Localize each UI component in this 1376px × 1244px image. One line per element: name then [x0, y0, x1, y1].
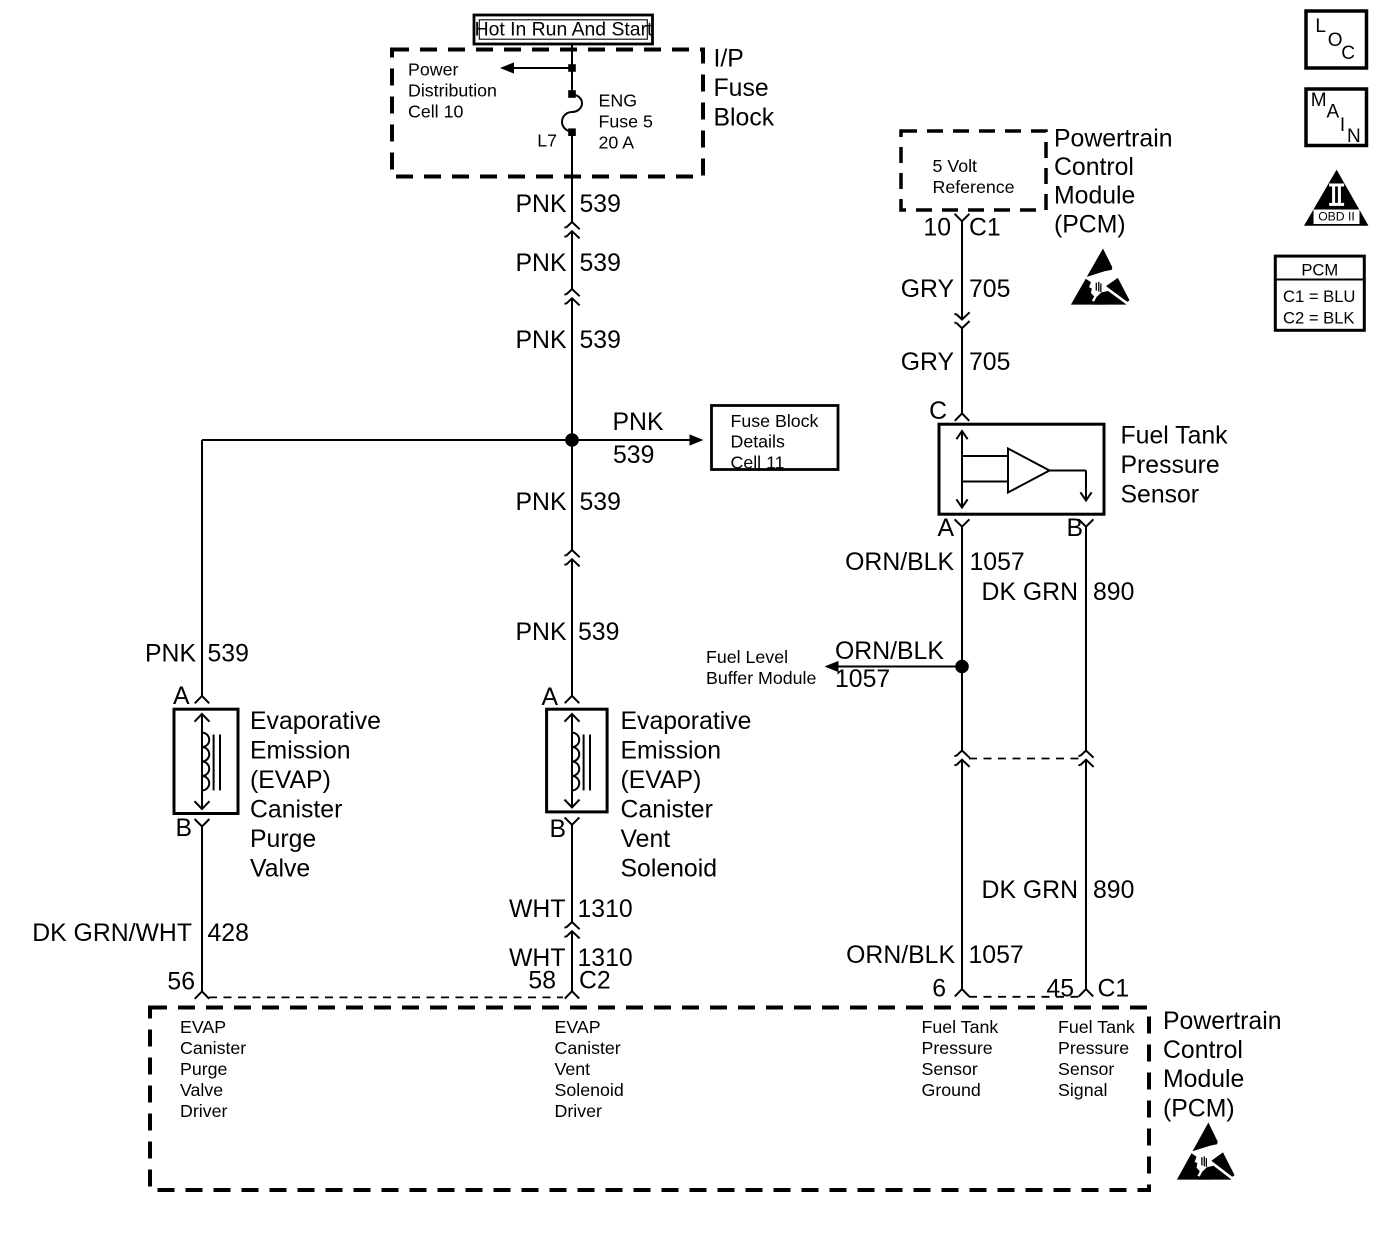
- svg-text:890: 890: [1093, 579, 1134, 606]
- svg-text:PCM: PCM: [1301, 261, 1338, 280]
- label Power Distribution Cell 10: [408, 59, 497, 121]
- svg-text:Module: Module: [1163, 1066, 1244, 1093]
- inline connector break 2: [564, 289, 579, 305]
- power source box Hot In Run And Start: [474, 15, 653, 44]
- svg-text:I/P: I/P: [714, 45, 744, 72]
- svg-text:ORN/BLK: ORN/BLK: [845, 549, 954, 576]
- svg-text:PNK: PNK: [516, 250, 567, 277]
- svg-text:B: B: [549, 816, 566, 843]
- I/P fuse block dashed boundary: [392, 50, 703, 177]
- svg-text:539: 539: [580, 327, 621, 354]
- solenoid EVAP Canister Vent Solenoid: [547, 709, 608, 812]
- svg-text:56: 56: [167, 969, 195, 996]
- op-amp U1 (sensor amplifier): [1008, 449, 1050, 493]
- label EVAP Canister Purge Valve Driver: [180, 1017, 246, 1121]
- svg-text:Emission: Emission: [621, 738, 722, 765]
- svg-text:Powertrain: Powertrain: [1054, 125, 1173, 152]
- label Fuel Level Buffer Module: [706, 647, 816, 688]
- svg-text:C1: C1: [969, 215, 1001, 242]
- value label ENG Fuse 5 20 A: [599, 90, 653, 152]
- svg-text:PNK: PNK: [613, 409, 664, 436]
- legend box MAIN: [1306, 89, 1367, 147]
- svg-text:ENG: ENG: [599, 90, 638, 110]
- pin label 58: [528, 968, 556, 995]
- svg-text:(PCM): (PCM): [1054, 211, 1126, 238]
- svg-text:Purge: Purge: [180, 1059, 228, 1079]
- node splice junction dot: [565, 433, 579, 447]
- terminal A purge valve: [195, 696, 209, 703]
- svg-text:(EVAP): (EVAP): [621, 767, 702, 794]
- svg-text:58: 58: [528, 968, 556, 995]
- svg-text:N: N: [1347, 126, 1361, 147]
- svg-text:Hot In Run And Start: Hot In Run And Start: [475, 18, 653, 40]
- svg-text:OBD II: OBD II: [1318, 210, 1355, 224]
- terminal A sensor: [955, 519, 970, 526]
- svg-text:10: 10: [923, 215, 951, 242]
- terminal 45 C1 into PCM: [1079, 989, 1093, 996]
- svg-text:Ground: Ground: [922, 1080, 981, 1100]
- svg-text:Sensor: Sensor: [922, 1059, 978, 1079]
- label I/P Fuse Block: [714, 45, 775, 131]
- value label ORN/BLK 1057 (2): [846, 942, 1024, 969]
- svg-text:ORN/BLK: ORN/BLK: [835, 638, 944, 665]
- connector link dashed: [969, 758, 1079, 760]
- svg-text:1057: 1057: [969, 942, 1024, 969]
- pin label B (sensor): [1066, 515, 1083, 542]
- sensor box Fuel Tank Pressure Sensor: [939, 424, 1104, 514]
- svg-text:PNK: PNK: [145, 641, 196, 668]
- value label GRY 705 (1): [901, 276, 1011, 303]
- value label DK GRN/WHT 428: [32, 920, 249, 947]
- wire PNK 539 left branch: [201, 440, 203, 696]
- legend table PCM connector colors: [1275, 256, 1364, 330]
- svg-text:EVAP: EVAP: [180, 1017, 226, 1037]
- label Powertrain Control Module (PCM) top: [1054, 125, 1173, 238]
- svg-text:EVAP: EVAP: [555, 1017, 601, 1037]
- svg-text:1310: 1310: [578, 896, 633, 923]
- pin label A (vent solenoid): [541, 684, 558, 711]
- svg-text:Power: Power: [408, 59, 458, 79]
- svg-text:GRY: GRY: [901, 349, 954, 376]
- connector edge dashed (right): [969, 996, 1079, 998]
- svg-text:A: A: [173, 683, 190, 710]
- ESD sensitivity symbol (top): [1071, 249, 1130, 305]
- label Evaporative Emission (EVAP) Canister Vent Solenoid: [621, 708, 752, 883]
- pin label B (vent solenoid): [549, 816, 566, 843]
- wire WHT 1310 segment 1: [571, 825, 573, 922]
- value label PNK 539 (left): [145, 641, 249, 668]
- value label WHT 1310 (1): [509, 896, 633, 923]
- svg-text:I: I: [1340, 115, 1345, 136]
- inline connector break 3: [564, 550, 579, 566]
- svg-text:Module: Module: [1054, 183, 1135, 210]
- svg-text:1057: 1057: [970, 549, 1025, 576]
- svg-text:Evaporative: Evaporative: [250, 708, 381, 735]
- svg-text:705: 705: [969, 349, 1010, 376]
- svg-text:PNK: PNK: [516, 191, 567, 218]
- svg-text:Canister: Canister: [250, 797, 342, 824]
- wire GRY 705 segment 1: [961, 221, 963, 319]
- wire DK GRN 890 segment 1: [1085, 527, 1087, 750]
- arrow wire to Fuel Level Buffer Module: [825, 661, 963, 672]
- module box Powertrain Control Module dashed: [150, 1008, 1149, 1191]
- wire ORN/BLK 1057 segment 1: [961, 527, 963, 750]
- value label PNK 539 (5): [516, 619, 620, 646]
- svg-text:A: A: [541, 684, 558, 711]
- value label PNK 539 (4): [516, 489, 621, 516]
- value label DK GRN 890 (2): [982, 877, 1135, 904]
- svg-text:A: A: [937, 515, 954, 542]
- wire GRY 705 segment 2: [961, 328, 963, 413]
- svg-text:45: 45: [1046, 976, 1074, 1003]
- svg-text:Fuel Tank: Fuel Tank: [1121, 423, 1229, 450]
- svg-text:(PCM): (PCM): [1163, 1095, 1235, 1122]
- svg-text:Canister: Canister: [621, 797, 713, 824]
- label EVAP Canister Vent Solenoid Driver: [555, 1017, 624, 1121]
- svg-text:PNK: PNK: [516, 619, 567, 646]
- value label PNK 539 (1): [516, 191, 621, 218]
- svg-text:Reference: Reference: [933, 177, 1015, 197]
- sensor output line: [1050, 471, 1092, 501]
- value label ORN/BLK 1057 (arrow): [835, 638, 944, 693]
- pin label C1 (bottom): [1098, 976, 1130, 1003]
- svg-text:C2 = BLK: C2 = BLK: [1283, 308, 1355, 327]
- value label ORN/BLK 1057 (1): [845, 549, 1025, 576]
- inline connector break 5 (down): [954, 312, 969, 328]
- label Evaporative Emission (EVAP) Canister Purge Valve: [250, 708, 381, 883]
- value label PNK 539 (arrow): [613, 409, 664, 469]
- wire PNK 539 segment 2: [571, 231, 573, 288]
- svg-text:705: 705: [969, 276, 1010, 303]
- inline connector break 1: [564, 222, 579, 238]
- svg-text:Vent: Vent: [621, 826, 671, 853]
- svg-text:539: 539: [580, 250, 621, 277]
- pin label 45: [1046, 976, 1074, 1003]
- svg-text:(EVAP): (EVAP): [250, 767, 331, 794]
- node junction square at distribution tap: [568, 64, 576, 72]
- svg-text:Vent: Vent: [555, 1059, 591, 1079]
- terminal B vent solenoid: [565, 817, 580, 824]
- svg-text:Fuel Tank: Fuel Tank: [1058, 1017, 1135, 1037]
- value label GRY 705 (2): [901, 349, 1011, 376]
- label Fuel Tank Pressure Sensor Ground: [922, 1017, 999, 1100]
- solenoid EVAP Canister Purge Valve: [174, 709, 238, 813]
- svg-text:GRY: GRY: [901, 276, 954, 303]
- svg-text:Powertrain: Powertrain: [1163, 1008, 1282, 1035]
- wire PNK 539 segment 4: [571, 440, 573, 550]
- svg-text:Fuse: Fuse: [714, 75, 769, 102]
- svg-text:Fuel Tank: Fuel Tank: [922, 1017, 999, 1037]
- svg-text:Solenoid: Solenoid: [621, 856, 718, 883]
- svg-text:Pressure: Pressure: [1121, 452, 1220, 479]
- svg-text:B: B: [1066, 515, 1083, 542]
- terminal C sensor: [955, 413, 969, 420]
- svg-text:Driver: Driver: [555, 1101, 602, 1121]
- svg-text:Pressure: Pressure: [1058, 1038, 1129, 1058]
- svg-text:Canister: Canister: [555, 1038, 621, 1058]
- module box 5 Volt Reference dashed: [901, 131, 1046, 210]
- legend box LOC: [1306, 11, 1367, 68]
- value label WHT 1310 (2): [509, 945, 633, 972]
- svg-text:539: 539: [613, 442, 654, 469]
- svg-text:C: C: [1341, 43, 1355, 64]
- svg-text:Valve: Valve: [250, 856, 310, 883]
- terminal 6 into PCM: [955, 989, 969, 996]
- svg-text:PNK: PNK: [516, 327, 567, 354]
- svg-text:Fuse 5: Fuse 5: [599, 111, 653, 131]
- wire DK GRN/WHT 428: [201, 826, 203, 991]
- terminal B purge valve: [195, 819, 210, 826]
- label Fuel Tank Pressure Sensor Signal: [1058, 1017, 1135, 1100]
- svg-text:ORN/BLK: ORN/BLK: [846, 942, 955, 969]
- wire DK GRN 890 segment 2: [1085, 760, 1087, 989]
- svg-text:Sensor: Sensor: [1121, 481, 1200, 508]
- svg-text:Details: Details: [731, 432, 785, 452]
- pin label A (purge valve): [173, 683, 190, 710]
- svg-text:M: M: [1311, 90, 1327, 111]
- svg-text:6: 6: [932, 976, 946, 1003]
- pin label C1 (top): [969, 215, 1001, 242]
- svg-text:539: 539: [580, 489, 621, 516]
- svg-text:539: 539: [580, 191, 621, 218]
- svg-text:Purge: Purge: [250, 826, 316, 853]
- symbol OBD II triangle: [1304, 170, 1369, 226]
- label Powertrain Control Module (PCM) bottom: [1163, 1008, 1282, 1122]
- svg-text:DK GRN: DK GRN: [982, 579, 1078, 606]
- wire branch to EVAP purge valve: [202, 439, 572, 441]
- svg-text:Cell 10: Cell 10: [408, 101, 463, 121]
- svg-text:Cell 11: Cell 11: [731, 452, 785, 472]
- svg-text:C1: C1: [1098, 976, 1130, 1003]
- pin label 56: [167, 969, 195, 996]
- svg-text:C1 = BLU: C1 = BLU: [1283, 287, 1355, 306]
- arrow wire to Fuse Block Details: [572, 434, 704, 445]
- svg-text:Control: Control: [1163, 1037, 1243, 1064]
- terminal A vent solenoid: [565, 696, 579, 703]
- svg-text:Driver: Driver: [180, 1101, 227, 1121]
- pin label A (sensor): [937, 515, 954, 542]
- value label PNK 539 (2): [516, 250, 621, 277]
- label 5 Volt Reference: [933, 156, 1015, 197]
- wire PNK 539 segment 5: [571, 559, 573, 696]
- node splice dot ORN/BLK: [955, 660, 969, 674]
- svg-text:C: C: [929, 398, 947, 425]
- fuse F ENG Fuse 5 20 A: [562, 90, 582, 136]
- pin label C2: [579, 968, 611, 995]
- svg-text:PNK: PNK: [516, 489, 567, 516]
- wire ORN/BLK 1057 segment 2: [961, 760, 963, 989]
- wire from Hot box into fuse block: [571, 44, 573, 94]
- svg-text:Evaporative: Evaporative: [621, 708, 752, 735]
- svg-text:20 A: 20 A: [599, 132, 635, 152]
- pin label 6: [932, 976, 946, 1003]
- svg-text:Control: Control: [1054, 154, 1134, 181]
- value label PNK 539 (3): [516, 327, 621, 354]
- svg-text:Solenoid: Solenoid: [555, 1080, 624, 1100]
- svg-text:A: A: [1327, 102, 1340, 123]
- terminal 10 C1 under PCM: [955, 214, 970, 221]
- svg-text:5 Volt: 5 Volt: [933, 156, 978, 176]
- svg-text:Emission: Emission: [250, 738, 351, 765]
- inline connector break 6: [954, 751, 969, 767]
- value label DK GRN 890 (1): [982, 579, 1135, 606]
- svg-text:539: 539: [578, 619, 619, 646]
- svg-text:Pressure: Pressure: [922, 1038, 993, 1058]
- svg-text:Valve: Valve: [180, 1080, 223, 1100]
- svg-text:Distribution: Distribution: [408, 80, 497, 100]
- svg-text:WHT: WHT: [509, 896, 565, 923]
- svg-text:DK GRN: DK GRN: [982, 877, 1078, 904]
- svg-text:C2: C2: [579, 968, 611, 995]
- svg-text:DK GRN/WHT: DK GRN/WHT: [32, 920, 192, 947]
- svg-text:Block: Block: [714, 105, 775, 132]
- label Fuel Tank Pressure Sensor: [1121, 423, 1229, 509]
- terminal B sensor: [1079, 519, 1094, 526]
- svg-text:Signal: Signal: [1058, 1080, 1107, 1100]
- inline connector break 4: [564, 922, 579, 938]
- svg-text:428: 428: [208, 920, 249, 947]
- pin label L7: [537, 131, 557, 151]
- svg-text:Buffer Module: Buffer Module: [706, 668, 816, 688]
- reference box Fuse Block Details Cell 11: [712, 406, 839, 473]
- wire PNK 539 segment 3: [571, 298, 573, 440]
- svg-text:Canister: Canister: [180, 1038, 246, 1058]
- svg-text:890: 890: [1093, 877, 1134, 904]
- svg-text:L: L: [1315, 16, 1326, 37]
- svg-text:B: B: [175, 815, 192, 842]
- svg-text:Sensor: Sensor: [1058, 1059, 1114, 1079]
- terminal 58 C2 into PCM: [565, 991, 579, 998]
- pin label C (sensor): [929, 398, 947, 425]
- pin label B (purge valve): [175, 815, 192, 842]
- terminal 56 into PCM: [195, 991, 209, 998]
- wire PNK 539 segment 1: [571, 133, 573, 222]
- svg-text:539: 539: [208, 641, 249, 668]
- svg-text:1057: 1057: [835, 666, 890, 693]
- inline connector break 7: [1078, 751, 1093, 767]
- svg-text:Fuse Block: Fuse Block: [731, 411, 819, 431]
- pin label 10: [923, 215, 951, 242]
- svg-text:Fuel Level: Fuel Level: [706, 647, 788, 667]
- ESD sensitivity symbol (bottom): [1177, 1123, 1235, 1180]
- sensor internal supply line: [956, 431, 1008, 508]
- wire WHT 1310 segment 2: [571, 931, 573, 991]
- connector edge dashed (left): [209, 996, 563, 998]
- svg-text:L7: L7: [537, 131, 557, 151]
- arrow to Power Distribution Cell 10: [500, 62, 572, 73]
